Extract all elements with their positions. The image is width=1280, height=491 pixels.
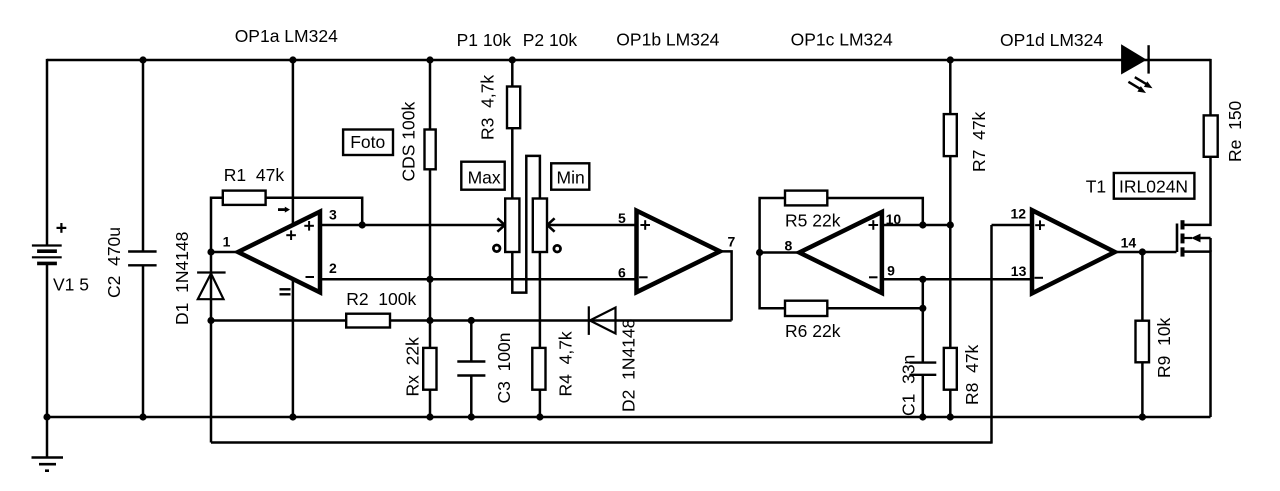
node C3 top (468, 317, 475, 324)
node top rail R3 (509, 56, 516, 63)
wire OP1d output pin14 to MOSFET gate (1115, 251, 1177, 254)
svg-text:P1 10k: P1 10k (457, 30, 512, 50)
wire CDS to pin2 line and down through Rx to bottom rail (429, 169, 432, 348)
IRL024N box (1114, 173, 1195, 199)
OP1c minus input mark (869, 276, 878, 278)
ground (32, 458, 64, 471)
wire left rail battery top lead (46, 59, 49, 246)
node bottom rail R4 (536, 413, 543, 420)
node R2 Rx (426, 317, 433, 324)
resistor R8 (944, 348, 957, 390)
OP1a internal plus (power) (286, 230, 296, 240)
wire C1 bottom lead (922, 375, 925, 417)
wire R3 top lead (511, 59, 514, 87)
resistor R2 (346, 314, 390, 328)
svg-text:T1: T1 (1086, 177, 1106, 197)
svg-text:12: 12 (1011, 205, 1027, 221)
wire OP1b pin7 output to riser down (720, 251, 732, 320)
node bottom rail C2 (139, 413, 146, 420)
wire MOSFET source to right vertical down to bottom rail (1185, 252, 1211, 417)
wire C1 branch from pin9 line down to C1 (922, 280, 925, 363)
svg-text:D1 1N4148: D1 1N4148 (172, 232, 192, 325)
node top rail R7 (947, 56, 954, 63)
wire C3 bottom lead (470, 376, 473, 418)
wire D1 branch: node1 down through D1, to 320.5 line, down to second rail (210, 252, 213, 443)
resistor R3 (507, 87, 520, 129)
wire pin12 horizontal (992, 224, 1033, 227)
node bottom rail C3 (468, 413, 475, 420)
svg-text:Rx 22k: Rx 22k (403, 337, 423, 397)
svg-text:Max: Max (468, 168, 501, 188)
svg-text:5: 5 (618, 210, 626, 226)
wire pin10 line (882, 224, 950, 227)
wire OP1c output node8 (760, 251, 800, 254)
resistor R5 (785, 191, 827, 206)
potentiometer P2 body (533, 199, 547, 253)
svg-text:Re 150: Re 150 (1225, 100, 1245, 162)
svg-text:Foto: Foto (350, 132, 385, 152)
svg-text:R4 4,7k: R4 4,7k (556, 331, 576, 396)
pin number labels (223, 205, 1137, 280)
wire R2-D2 line from D1 node to OP1b output riser (211, 319, 732, 322)
wire R6 feedback loop bottom (760, 253, 785, 309)
svg-text:R3 4,7k: R3 4,7k (478, 75, 498, 140)
wire OP1a power line (292, 59, 295, 417)
svg-text:OP1d LM324: OP1d LM324 (1000, 30, 1103, 50)
wire R9 bottom lead (1141, 362, 1144, 417)
wire left rail battery bottom lead (46, 263, 49, 417)
svg-text:9: 9 (887, 262, 895, 278)
wire R7 R8 branch (949, 59, 952, 114)
wire pin2-pin6 line OP1a to OP1b (320, 278, 637, 281)
svg-text:R5 22k: R5 22k (785, 211, 841, 231)
node bottom rail R8 (947, 413, 954, 420)
Max box (461, 162, 504, 190)
wire R4 bottom lead (539, 390, 542, 417)
node top rail CDS (426, 56, 433, 63)
wire MOSFET body to right vertical (1198, 237, 1211, 240)
svg-text:6: 6 (618, 264, 626, 280)
op-amp OP1c (799, 212, 882, 293)
node D1 R2 (207, 317, 214, 324)
capacitor C1 (910, 363, 937, 375)
OP1d minus input mark (1035, 277, 1044, 279)
svg-text:8: 8 (785, 238, 793, 254)
capacitor C3 (457, 362, 485, 376)
node 8 OP1c output (756, 249, 763, 256)
node R1 pin3 (359, 221, 366, 228)
wire pin1 of OP1a to D1 node (211, 251, 238, 254)
transistor T1 MOSFET (1177, 220, 1183, 256)
svg-text:CDS 100k: CDS 100k (399, 101, 419, 181)
P1 wiper arrowhead (497, 218, 504, 231)
OP1a plus input mark (304, 221, 314, 231)
svg-text:R7 47k: R7 47k (969, 111, 989, 172)
potentiometer P1 body (505, 199, 519, 253)
svg-text:OP1a LM324: OP1a LM324 (235, 26, 338, 46)
wire R1 right leg down to pin3 line (266, 198, 363, 225)
wire Re bottom to MOSFET drain (1185, 157, 1211, 225)
labels vertical (rotated) (104, 75, 1245, 416)
battery V1 (32, 223, 66, 263)
wire C2 top lead (142, 59, 145, 252)
wire top rail (47, 59, 1211, 62)
svg-text:C3 100n: C3 100n (494, 332, 514, 403)
node R7 R8 pin10 (947, 221, 954, 228)
wire R3 to P1 body (511, 128, 514, 198)
svg-text:P2 10k: P2 10k (523, 30, 578, 50)
svg-text:R9 10k: R9 10k (1154, 317, 1174, 378)
resistor R7 (944, 114, 957, 156)
wire bottom rail (47, 416, 1211, 419)
resistor CDS (425, 130, 436, 170)
OP1b plus input mark (640, 220, 650, 230)
diode D1 (197, 273, 226, 300)
resistor R1 (223, 191, 266, 205)
wire CDS branch top (429, 59, 432, 130)
wire R6 right leg (827, 307, 923, 310)
wire ground stem (46, 417, 49, 457)
wire R9 top lead (1141, 252, 1144, 321)
svg-text:3: 3 (329, 206, 337, 222)
node pin14 R9 (1139, 248, 1146, 255)
node pin9 C1 (919, 276, 926, 283)
svg-text:R8 47k: R8 47k (962, 344, 982, 405)
svg-text:OP1b LM324: OP1b LM324 (616, 30, 719, 50)
resistor Rx (423, 348, 436, 390)
svg-text:D2 1N4148: D2 1N4148 (619, 319, 639, 412)
OP1a V+ arrow mark (278, 207, 290, 213)
node top rail C2 (139, 56, 146, 63)
svg-text:IRL024N: IRL024N (1119, 177, 1188, 197)
wire pin12 riser from second rail (990, 225, 993, 444)
op-amp OP1a (238, 212, 320, 293)
OP1a minus input mark (306, 276, 315, 278)
wire pin5 line from P2 wiper to OP1b (549, 224, 637, 227)
wire C3 top lead (470, 321, 473, 362)
svg-text:C2 470u: C2 470u (104, 227, 124, 298)
svg-text:7: 7 (728, 233, 736, 249)
OP1c plus input mark (869, 220, 879, 230)
node bottom rail Rx (426, 413, 433, 420)
resistor Re (1204, 115, 1218, 156)
svg-text:OP1c LM324: OP1c LM324 (791, 30, 893, 50)
labels horizontal (53, 26, 1188, 341)
diode D2 (589, 306, 616, 335)
wire P2 bottom lead down to R4 (539, 252, 542, 348)
node top rail OP1a power (289, 56, 296, 63)
LED (1121, 44, 1152, 93)
node bottom rail C1 (919, 413, 926, 420)
svg-text:R2 100k: R2 100k (346, 289, 416, 309)
node pin1 D1 (207, 248, 214, 255)
wire R5 right leg down to pin10 line (827, 198, 923, 225)
OP1a V- double bar mark (280, 289, 291, 294)
P2 o circle (554, 245, 561, 252)
P1 o circle (493, 245, 500, 252)
node CDS pin2 (426, 276, 433, 283)
wire R1 left leg (211, 198, 223, 252)
wire Rx bottom lead (429, 390, 432, 417)
svg-text:2: 2 (329, 260, 337, 276)
resistor R4 (532, 348, 545, 390)
wire C2 bottom lead (142, 265, 145, 417)
node bottom rail R9 (1139, 413, 1146, 420)
Min box (551, 163, 589, 189)
capacitor C2 (128, 252, 157, 266)
node bottom rail ground (43, 413, 50, 420)
op-amp OP1d (1032, 210, 1115, 293)
MOSFET body arrow (1191, 234, 1201, 243)
OP1b minus input mark (639, 276, 648, 278)
svg-text:14: 14 (1121, 235, 1137, 251)
svg-text:R6 22k: R6 22k (785, 321, 841, 341)
svg-text:1: 1 (223, 234, 231, 250)
Foto box (343, 130, 393, 156)
wire P1 bottom lead and riser to P2 top (512, 156, 540, 293)
resistor R9 (1136, 321, 1150, 363)
node R5 pin10 (919, 221, 926, 228)
svg-text:R1 47k: R1 47k (224, 165, 285, 185)
op-amp OP1b (637, 211, 720, 293)
resistor R6 (785, 301, 827, 316)
svg-text:Min: Min (557, 168, 585, 188)
svg-text:13: 13 (1011, 263, 1027, 279)
node bottom rail OP1a power (289, 413, 296, 420)
OP1d plus input mark (1035, 220, 1045, 230)
wire pin9 - pin13 line (882, 278, 1032, 281)
svg-text:C1 33n: C1 33n (899, 355, 919, 416)
svg-text:V1 5: V1 5 (53, 275, 89, 295)
svg-text:10: 10 (886, 211, 902, 227)
wire right edge top: rail corner down to Re (1209, 59, 1212, 117)
node R6 C1 (919, 305, 926, 312)
wire R5 feedback loop top (760, 198, 785, 253)
P2 wiper arrowhead (547, 218, 554, 231)
wire pin3 line to P1 wiper (320, 224, 503, 227)
wire second bottom rail (211, 441, 992, 444)
